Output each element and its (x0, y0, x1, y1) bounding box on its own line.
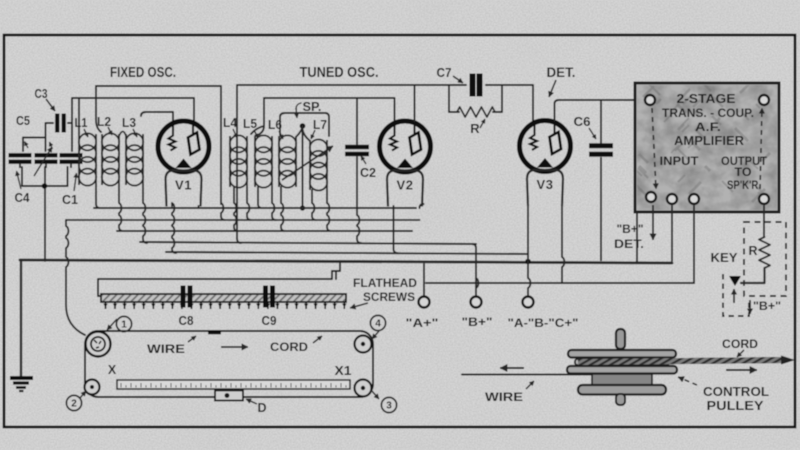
wire amp corner to ground bus (636, 212, 638, 262)
svg-text:SP.: SP. (303, 100, 322, 114)
wire SP sense line (296, 126, 310, 207)
node SP tap (300, 123, 306, 129)
node caps junction (42, 183, 48, 189)
dial scale (117, 380, 350, 389)
inductor L3 (126, 133, 143, 185)
resistor R key (759, 237, 770, 268)
svg-text:CONTROL: CONTROL (703, 385, 769, 399)
svg-text:SP'K'R.: SP'K'R. (727, 178, 761, 192)
svg-text:C2: C2 (360, 166, 376, 180)
svg-text:L5: L5 (243, 116, 257, 131)
ground symbol (10, 378, 33, 391)
wire caps to ground bus (44, 186, 46, 261)
arrow DET leader (549, 80, 557, 97)
arrow L1 leader (84, 129, 88, 137)
wire L5 right drop (272, 187, 276, 220)
svg-text:L1: L1 (75, 115, 88, 130)
bus 5 (166, 252, 528, 254)
terminal B+ (471, 297, 482, 308)
wire L7 right drop (327, 190, 331, 231)
capacitor C3 (57, 114, 64, 133)
wire V3 plate line (555, 100, 646, 121)
svg-text:C5: C5 (16, 113, 30, 128)
wire L7 left drop (312, 190, 316, 220)
arrow callout1 (107, 319, 117, 330)
svg-text:V2: V2 (397, 178, 414, 193)
svg-text:2-STAGE: 2-STAGE (677, 91, 736, 106)
arrow cord right (726, 366, 757, 373)
arrow R leader (480, 119, 485, 128)
arrow cord pulley leader (737, 350, 744, 357)
svg-text:L7: L7 (313, 117, 327, 132)
inductor L7 (310, 140, 327, 191)
svg-text:C8: C8 (179, 313, 194, 328)
wire plate line y112 (141, 112, 173, 122)
arrow wire left (500, 364, 524, 371)
svg-text:X: X (108, 363, 117, 377)
wire V2 right leg drop (420, 204, 424, 208)
arrow key up (731, 289, 736, 303)
arrow C6 leader (589, 128, 596, 139)
bus 1 (94, 207, 416, 209)
svg-text:C7: C7 (437, 65, 452, 80)
wire grid line y98 (72, 98, 194, 148)
terminal ABC (523, 297, 534, 308)
capacitor C4 section (35, 155, 58, 168)
capacitor C1 section (60, 155, 83, 168)
svg-text:C4: C4 (15, 190, 31, 205)
wire output to R (763, 206, 765, 237)
belt loop (85, 331, 373, 397)
wire V2 left leg drop (394, 206, 398, 253)
callout 3 (381, 397, 396, 412)
arrow wire pulley leader (526, 381, 534, 389)
terminal bottom 3 (689, 194, 699, 204)
wire V2 plate to top bus (414, 85, 416, 121)
svg-text:L4: L4 (223, 115, 238, 130)
inductor L4 (230, 135, 247, 187)
arrow L4 leader (233, 129, 237, 138)
wire L6 left drop (281, 187, 285, 231)
wire L5 left drop (258, 187, 262, 208)
wire fixed osc top bus (96, 86, 221, 204)
arrow variable cap C4 (34, 147, 52, 176)
arrow L3 leader (133, 129, 137, 137)
svg-text:R: R (748, 244, 757, 258)
wire L4 right drop (247, 187, 251, 220)
wire V1 right leg drop (198, 206, 200, 208)
arrow output dashed (759, 108, 765, 189)
wire L4 left drop (234, 187, 238, 231)
wire C2 drop (357, 209, 361, 243)
screws row (103, 302, 346, 309)
wire A+ terminal lead (423, 264, 425, 296)
node V3 cathode junction (525, 259, 531, 265)
arrow L6 leader (279, 131, 283, 139)
wire C6 bus join (600, 255, 602, 260)
wire L1 left rail up (78, 98, 80, 134)
svg-text:C3: C3 (35, 86, 48, 101)
pulley 3 (355, 380, 372, 397)
svg-text:"B+": "B+" (753, 299, 781, 313)
arrow key down (747, 300, 752, 314)
arrow C1 leader (74, 173, 79, 191)
svg-text:C9: C9 (262, 313, 277, 328)
wire RC loop (449, 85, 502, 112)
inductor L6 (279, 135, 296, 187)
wire caps box top (23, 138, 46, 152)
control pulley (567, 329, 677, 405)
terminal A+ (419, 297, 430, 308)
pulley 1 (86, 332, 111, 357)
callout 4 (370, 315, 385, 330)
wire ground lead (20, 261, 22, 377)
wire SP leader curve (296, 103, 301, 109)
arrow variometer (282, 146, 333, 180)
wire V1 left leg drop (172, 203, 176, 253)
arrow SP leader (295, 108, 299, 118)
inductor L2 (102, 133, 119, 185)
wire V3 left leg to terminal (528, 258, 530, 296)
wire L2r drop (119, 185, 123, 231)
svg-text:R: R (470, 121, 480, 136)
wire fixed bus drop join (221, 203, 225, 220)
wire R to key (741, 268, 765, 283)
wire C7 to V3 grid (486, 85, 533, 121)
wire V3 legs (528, 206, 564, 284)
svg-text:3: 3 (386, 401, 392, 412)
wire caps bottom loop (22, 167, 68, 186)
arrow C7 leader (453, 76, 463, 83)
svg-text:1: 1 (121, 320, 127, 331)
wire L3r drop (143, 185, 147, 243)
terminal input top (645, 95, 655, 105)
wire strip top loop (98, 271, 336, 296)
arrow callout4 (372, 331, 379, 339)
capacitor C2 (345, 98, 369, 209)
arrow input dashed (652, 108, 659, 189)
resistor R detector (457, 107, 495, 117)
arrow L5 leader (254, 130, 258, 138)
cord rope (578, 356, 795, 365)
bus 2 (66, 219, 420, 221)
belt splice mark (208, 331, 221, 335)
capacitor C6 (589, 146, 613, 155)
svg-text:D: D (257, 401, 266, 415)
wire to pulley1 (66, 220, 85, 335)
capacitor C5 section (9, 155, 32, 168)
wire tuning long (462, 374, 594, 376)
svg-text:WIRE: WIRE (485, 390, 523, 404)
svg-text:TO: TO (735, 165, 752, 179)
svg-text:L6: L6 (268, 117, 282, 132)
key contact (729, 276, 741, 286)
arrow cap tap left (25, 142, 29, 149)
arrow callout3 (371, 390, 379, 399)
svg-text:"B+": "B+" (462, 315, 493, 329)
terminal output bottom (759, 194, 769, 204)
dashed box key (723, 274, 749, 316)
pulley 2 (85, 380, 100, 395)
wire tuned top bus (237, 85, 466, 238)
svg-text:AMPLIFIER: AMPLIFIER (674, 134, 744, 148)
svg-text:"A+": "A+" (406, 316, 439, 330)
svg-text:FIXED OSC.: FIXED OSC. (110, 65, 176, 81)
arrow D leader (246, 399, 257, 404)
svg-text:PULLEY: PULLEY (707, 399, 765, 413)
svg-text:SCREWS: SCREWS (363, 290, 415, 304)
arrow wire dial leader (188, 336, 196, 342)
terminal bottom 2 (667, 194, 677, 204)
inductor L1 (79, 133, 96, 185)
wire C3 leads (46, 123, 73, 151)
wire B+ terminal lead (472, 244, 478, 296)
svg-text:CORD: CORD (722, 337, 758, 351)
bus 3 (117, 230, 412, 232)
arrow direction mid (221, 344, 248, 350)
capacitor C9 (266, 286, 273, 308)
svg-text:TRANS. - COUP.: TRANS. - COUP. (662, 106, 754, 120)
arrow C3 leader (46, 99, 55, 111)
slider D (215, 391, 243, 401)
dashed box R (744, 222, 786, 296)
capacitor C7 (473, 74, 480, 97)
svg-text:2: 2 (71, 399, 77, 410)
arrow callout2 (80, 391, 86, 398)
capacitor C8 (183, 286, 190, 308)
ground bus thick (20, 260, 672, 263)
svg-text:C6: C6 (574, 114, 591, 129)
svg-text:X1: X1 (335, 364, 352, 378)
arrow B+ det (650, 205, 656, 240)
svg-text:L2: L2 (97, 114, 111, 129)
inductor L5 (255, 135, 272, 187)
arrow cap tap mid (49, 142, 53, 149)
triode V3 (520, 120, 571, 206)
terminal output top (759, 95, 769, 105)
wire C6 drop (600, 100, 602, 260)
wire tuned third line (280, 113, 329, 136)
screw strip bar (101, 294, 346, 302)
arrow C2 leader (361, 156, 366, 164)
wire L1r drop (96, 185, 100, 208)
terminal bottom 1 (646, 192, 656, 202)
svg-text:DET.: DET. (547, 65, 576, 80)
svg-text:"B+": "B+" (617, 222, 644, 236)
arrow control leader (678, 377, 697, 386)
svg-text:DET.: DET. (614, 237, 644, 251)
bus 7 (426, 282, 694, 284)
svg-text:FLATHEAD: FLATHEAD (353, 276, 417, 290)
wire L2 L3 link arch (119, 132, 126, 137)
triode V2 (380, 121, 431, 207)
arrow L2 leader (108, 127, 112, 135)
wire term2 to bus (671, 206, 673, 261)
svg-text:KEY: KEY (711, 251, 739, 265)
wire fixed osc bus drop to L2 (96, 86, 101, 132)
arrow C4 leader (15, 171, 21, 189)
svg-text:WIRE: WIRE (147, 342, 185, 356)
callout 1 (116, 316, 131, 331)
bus 4 (140, 242, 476, 244)
arrow flathead leader (350, 303, 368, 309)
svg-text:"A-"B-"C+": "A-"B-"C+" (508, 316, 579, 330)
wire term3 to bus (693, 206, 695, 283)
pulley 4 (355, 336, 372, 353)
svg-text:INPUT: INPUT (660, 154, 700, 168)
wire tuned bus drop (237, 238, 241, 243)
arrow cord dial leader (313, 336, 322, 343)
svg-text:A.F.: A.F. (695, 120, 721, 134)
svg-text:V1: V1 (175, 178, 192, 193)
svg-text:4: 4 (375, 319, 381, 330)
wire tuned second line (251, 98, 395, 135)
callout 2 (66, 395, 81, 410)
amplifier block U1 2-stage AF amplifier (635, 82, 779, 212)
svg-text:CORD: CORD (270, 340, 308, 354)
svg-text:L3: L3 (122, 115, 136, 130)
svg-text:V3: V3 (537, 177, 554, 192)
arrow L7 leader (311, 130, 315, 139)
triode V1 (158, 121, 209, 207)
svg-text:C1: C1 (62, 192, 78, 207)
wire strip riser (336, 263, 340, 279)
node SP bottom junction (300, 205, 305, 210)
svg-text:TUNED OSC.: TUNED OSC. (300, 65, 379, 81)
